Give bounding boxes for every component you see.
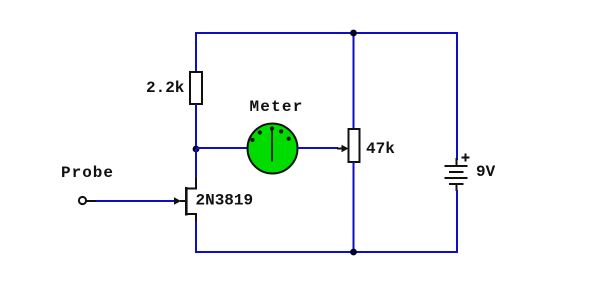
meter M1 body	[248, 124, 298, 174]
transistor Q1 gate arrow	[174, 197, 186, 205]
wire right rail lower (battery to bottom rail)	[456, 190, 458, 253]
wire left rail upper (top rail to resistor R1)	[195, 32, 197, 73]
node C junction dot (bottom rail)	[350, 249, 357, 256]
wire meter left (node A to meter)	[196, 147, 248, 149]
wire left rail lower (node A to transistor drain)	[195, 149, 197, 180]
battery plus sign	[462, 154, 470, 162]
transistor Q1 channel bar	[185, 187, 188, 216]
potentiometer wiper arrow	[337, 145, 349, 153]
node A junction dot	[193, 146, 200, 153]
svg-text:Probe: Probe	[61, 164, 114, 182]
transistor Q1 drain lead	[187, 178, 197, 189]
wire mid rail upper (top rail to potentiometer R2)	[353, 32, 355, 130]
battery BT1	[445, 158, 468, 191]
node B junction dot (top rail)	[350, 30, 357, 37]
svg-text:Meter: Meter	[250, 98, 304, 116]
wire left rail middle (resistor to node A)	[195, 104, 197, 150]
meter needle	[271, 129, 273, 162]
resistor R1 2.2k body	[190, 72, 202, 104]
meter scale dots	[250, 126, 290, 142]
wire transistor source to bottom rail	[195, 221, 197, 253]
potentiometer R2 47k body	[349, 129, 360, 162]
wire top rail	[195, 32, 458, 34]
wire mid rail lower (potentiometer to bottom rail)	[353, 162, 355, 253]
svg-text:2.2k: 2.2k	[146, 79, 185, 97]
svg-text:47k: 47k	[366, 140, 395, 158]
wire bottom rail	[195, 251, 458, 253]
transistor Q1 source lead	[187, 214, 197, 222]
svg-text:2N3819: 2N3819	[196, 192, 254, 210]
wire meter right (meter to potentiometer wiper)	[297, 147, 338, 149]
probe lead black segment	[86, 200, 97, 202]
wire right rail upper (top rail to battery BT1)	[456, 32, 458, 160]
wire probe to gate	[96, 200, 174, 202]
probe terminal	[79, 197, 86, 204]
svg-text:9V: 9V	[476, 163, 496, 181]
